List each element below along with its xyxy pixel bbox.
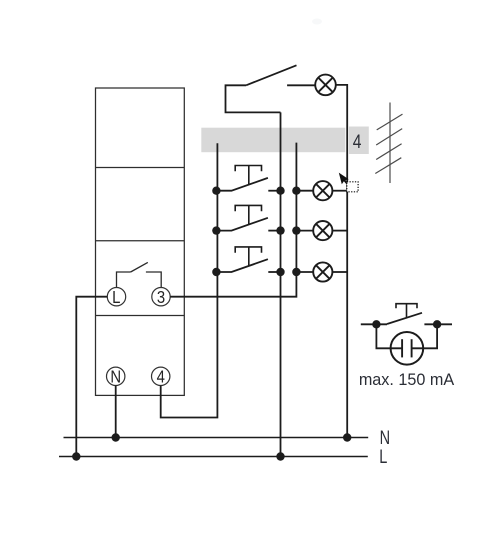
lamp E1 (top) bbox=[315, 75, 336, 96]
svg-text:L: L bbox=[379, 445, 387, 468]
wire S1 to lamp E2 bbox=[296, 190, 313, 192]
junction lamp feeder E2 bbox=[292, 187, 300, 195]
drag handle box bbox=[347, 182, 358, 192]
junction L wire on L bus bbox=[72, 452, 80, 460]
svg-text:N: N bbox=[110, 368, 121, 387]
wire from terminal 4 to push buttons bbox=[161, 143, 218, 417]
relay contact (internal switch) bbox=[117, 262, 162, 287]
N bus wire bbox=[64, 437, 369, 439]
svg-text:4: 4 bbox=[157, 368, 165, 387]
svg-text:3: 3 bbox=[157, 288, 165, 307]
junction S3 left bbox=[212, 268, 220, 276]
device outline bbox=[96, 88, 185, 395]
junction lamp feeder E3 bbox=[292, 226, 300, 234]
terminal L bbox=[107, 288, 125, 308]
junction S2 contact riser bbox=[276, 226, 284, 234]
switch (timer contact) bbox=[246, 65, 315, 85]
lamp E2 bbox=[313, 181, 332, 200]
terminal 4 bbox=[152, 367, 170, 387]
svg-text:max. 150 mA: max. 150 mA bbox=[359, 371, 455, 389]
lamp E4 bbox=[313, 262, 332, 281]
wire switched-line riser bbox=[280, 112, 282, 456]
junction riser on L bus bbox=[276, 452, 284, 460]
junction S1 left bbox=[212, 187, 220, 195]
wire from N to N-bus bbox=[115, 386, 117, 438]
junction N terminal on N bus bbox=[112, 433, 120, 441]
wire lamp E3 to right bus bbox=[332, 230, 347, 232]
terminal N bbox=[107, 367, 125, 387]
junction S2 left bbox=[212, 226, 220, 234]
mouse cursor bbox=[339, 173, 349, 185]
terminal 3 bbox=[152, 288, 170, 308]
faint print artifact bbox=[312, 19, 322, 25]
highlight band (concealed wiring zone) bbox=[201, 128, 345, 153]
wire lamp E1 to right bus bbox=[336, 85, 347, 438]
lamp E3 bbox=[313, 221, 332, 240]
push button S3 bbox=[216, 247, 281, 272]
svg-text:L: L bbox=[112, 288, 120, 307]
push button S2 bbox=[216, 205, 281, 230]
junction S1 contact riser bbox=[276, 187, 284, 195]
wire S2 to lamp E3 bbox=[296, 230, 313, 232]
net label 4 bbox=[349, 127, 369, 155]
wire from L to L-bus bbox=[76, 297, 107, 457]
wall hatching bbox=[375, 103, 402, 184]
junction lamp feeder E4 bbox=[292, 268, 300, 276]
illuminated push button with glow lamp bbox=[361, 304, 452, 365]
svg-text:4: 4 bbox=[353, 130, 362, 152]
junction right bus on N bus bbox=[343, 433, 351, 441]
wire from terminal 3 up to lamp feeder bbox=[170, 143, 296, 297]
push button S1 bbox=[216, 166, 281, 191]
junction S3 contact riser bbox=[276, 268, 284, 276]
junction pushbutton right bbox=[433, 320, 441, 328]
wire lamp E2 to right bus bbox=[332, 190, 347, 192]
L bus wire bbox=[59, 456, 368, 458]
wire S3 to lamp E4 bbox=[296, 271, 313, 273]
wire lamp E4 to right bus bbox=[332, 271, 347, 273]
wire to timer switch bbox=[226, 85, 281, 112]
junction pushbutton left bbox=[372, 320, 380, 328]
